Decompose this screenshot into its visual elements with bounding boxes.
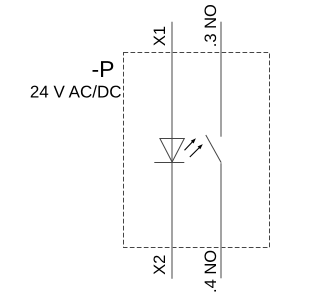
enclosure dashed border bbox=[124, 53, 270, 248]
NO contact blade bbox=[206, 135, 221, 163]
wire X1-X2 bbox=[171, 22, 173, 279]
svg-text:.3 NO: .3 NO bbox=[202, 4, 220, 47]
LED light arrow 2 bbox=[190, 144, 203, 157]
wire .3 upper segment bbox=[220, 22, 222, 137]
LED D1 triangle bbox=[160, 139, 184, 163]
svg-text:-P: -P bbox=[92, 56, 115, 82]
svg-text:.4 NO: .4 NO bbox=[202, 250, 220, 293]
wire .4 lower segment bbox=[220, 163, 222, 278]
svg-text:X2: X2 bbox=[151, 255, 169, 275]
svg-text:24 V AC/DC: 24 V AC/DC bbox=[30, 83, 122, 102]
LED light arrow 1 bbox=[185, 138, 196, 150]
LED cathode bar bbox=[154, 162, 184, 164]
svg-text:X1: X1 bbox=[151, 26, 169, 46]
